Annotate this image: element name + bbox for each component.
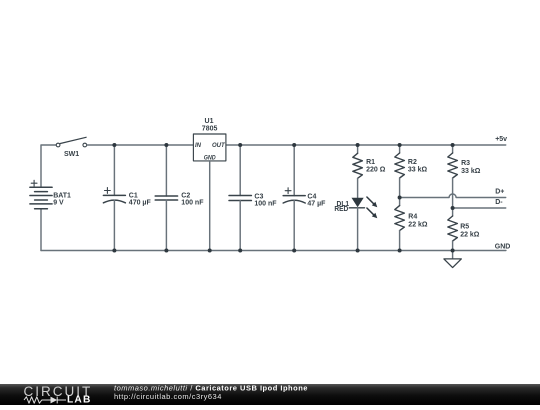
- svg-text:+5v: +5v: [495, 136, 507, 143]
- svg-text:R3: R3: [461, 160, 470, 167]
- wire bottom GND rail: [41, 250, 506, 252]
- LED light arrow 1: [367, 197, 374, 204]
- svg-text:OUT: OUT: [212, 143, 226, 149]
- capacitor C1: [113, 145, 115, 195]
- junction dots top rail: [112, 143, 454, 147]
- svg-text:LAB: LAB: [67, 395, 92, 405]
- svg-text:C2: C2: [181, 193, 190, 200]
- node D+ junction dot: [398, 196, 402, 200]
- resistor R2: [399, 145, 401, 153]
- capacitor C3: [239, 145, 241, 196]
- svg-text:22 kΩ: 22 kΩ: [460, 232, 480, 239]
- svg-text:R2: R2: [408, 159, 417, 166]
- wire LED to bottom rail: [357, 208, 359, 251]
- svg-text:9 V: 9 V: [53, 199, 64, 206]
- svg-text:BAT1: BAT1: [53, 192, 71, 199]
- wire battery bottom: [40, 209, 42, 251]
- svg-text:R4: R4: [408, 213, 417, 220]
- svg-text:220 Ω: 220 Ω: [366, 166, 386, 173]
- battery BAT1: [30, 187, 52, 209]
- LED light arrow 2: [367, 208, 374, 215]
- resistor R4: [399, 198, 401, 206]
- svg-text:SW1: SW1: [64, 151, 79, 158]
- wire D+ with hop over R3 column: [400, 194, 506, 198]
- svg-text:D+: D+: [495, 189, 504, 196]
- svg-text:C4: C4: [307, 194, 316, 201]
- footer bar: [0, 384, 540, 405]
- svg-text:GND: GND: [495, 243, 511, 250]
- junction dots bottom rail: [112, 249, 454, 253]
- node D- junction dot: [451, 206, 455, 210]
- svg-text:22 kΩ: 22 kΩ: [408, 221, 428, 228]
- svg-text:IN: IN: [195, 143, 202, 149]
- svg-text:C3: C3: [254, 194, 263, 201]
- wire battery top to switch: [41, 145, 56, 187]
- svg-text:7805: 7805: [202, 126, 218, 133]
- svg-text:100 nF: 100 nF: [254, 201, 277, 208]
- svg-text:100 nF: 100 nF: [181, 200, 204, 207]
- capacitor C2: [165, 145, 167, 196]
- wire switch to U1 IN: [87, 144, 193, 146]
- svg-text:D-: D-: [495, 199, 503, 206]
- svg-text:R1: R1: [366, 159, 375, 166]
- wire D-: [453, 207, 506, 209]
- svg-text:RED: RED: [334, 206, 348, 213]
- svg-text:http://circuitlab.com/c3ry634: http://circuitlab.com/c3ry634: [114, 392, 222, 401]
- battery plus sign: [31, 180, 37, 186]
- svg-text:C1: C1: [129, 193, 138, 200]
- svg-text:33 kΩ: 33 kΩ: [461, 168, 481, 175]
- svg-text:47 µF: 47 µF: [307, 201, 326, 208]
- op-amp U1 box: [193, 134, 226, 161]
- resistor R5: [452, 208, 454, 216]
- resistor R1: [357, 145, 359, 153]
- svg-text:U1: U1: [205, 118, 214, 125]
- wire U1 GND pin: [209, 161, 211, 251]
- svg-text:R5: R5: [460, 224, 469, 231]
- capacitor C4: [293, 145, 295, 196]
- resistor R3: [452, 145, 454, 153]
- svg-text:33 kΩ: 33 kΩ: [408, 166, 428, 173]
- logo resistor-diode squiggle: [24, 397, 66, 404]
- ground symbol: [452, 251, 454, 259]
- switch SW1: [56, 137, 86, 147]
- svg-text:470 µF: 470 µF: [129, 200, 152, 207]
- wire U1 OUT to +5v end: [226, 144, 506, 146]
- LED DL1: [352, 198, 364, 208]
